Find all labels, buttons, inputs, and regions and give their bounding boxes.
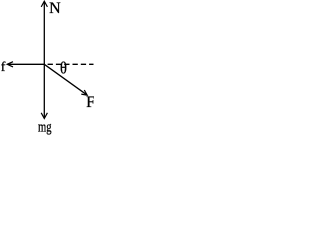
wire: vertical axis line (N / mg axis) xyxy=(43,2,45,118)
arrowhead: weight mg (down) xyxy=(41,113,47,119)
wire: applied force F diagonal line xyxy=(44,64,86,94)
svg-text:F: F xyxy=(86,94,94,111)
dashed reference line xyxy=(48,63,94,65)
arrowhead: friction force f (left) xyxy=(7,62,13,67)
arrowhead: applied force F (down-right) xyxy=(81,90,87,95)
svg-text:N: N xyxy=(49,0,61,17)
svg-text:f: f xyxy=(1,60,6,75)
arrowhead: normal force N (up) xyxy=(41,1,47,7)
svg-text:mg: mg xyxy=(38,120,52,136)
wire: horizontal friction line (f) xyxy=(8,63,45,65)
svg-text:θ: θ xyxy=(60,59,67,77)
